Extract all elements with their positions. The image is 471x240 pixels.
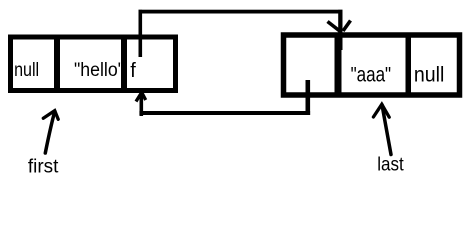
- wire next pointer horizontal top: [139, 10, 343, 14]
- svg-text:f: f: [130, 60, 136, 82]
- arrowhead up into left box: [136, 92, 146, 101]
- hand arrow last: [382, 105, 391, 155]
- cell divider left box 1: [54, 37, 60, 91]
- node box last (right list node): [284, 35, 460, 95]
- svg-text:"hello": "hello": [74, 60, 124, 81]
- cell divider right box 2: [406, 35, 412, 95]
- node box first (left list node): [11, 37, 176, 91]
- svg-text:last: last: [377, 155, 404, 176]
- wire prev pointer vertical up to left box: [140, 94, 144, 116]
- cell divider left box 2: [121, 37, 127, 91]
- svg-text:null: null: [414, 62, 445, 86]
- svg-text:null: null: [14, 60, 39, 81]
- cell divider right box 1: [335, 35, 342, 95]
- hand arrow first: [45, 111, 55, 153]
- svg-text:first: first: [28, 157, 59, 178]
- svg-text:"aaa": "aaa": [351, 62, 392, 86]
- wire next pointer vertical down into right box: [338, 10, 342, 50]
- arrowhead down into right box: [328, 21, 351, 33]
- wire prev pointer horizontal bottom: [139, 111, 310, 115]
- wire next pointer vertical from f cell: [139, 10, 143, 57]
- wire prev pointer vertical from right box cell: [306, 80, 311, 115]
